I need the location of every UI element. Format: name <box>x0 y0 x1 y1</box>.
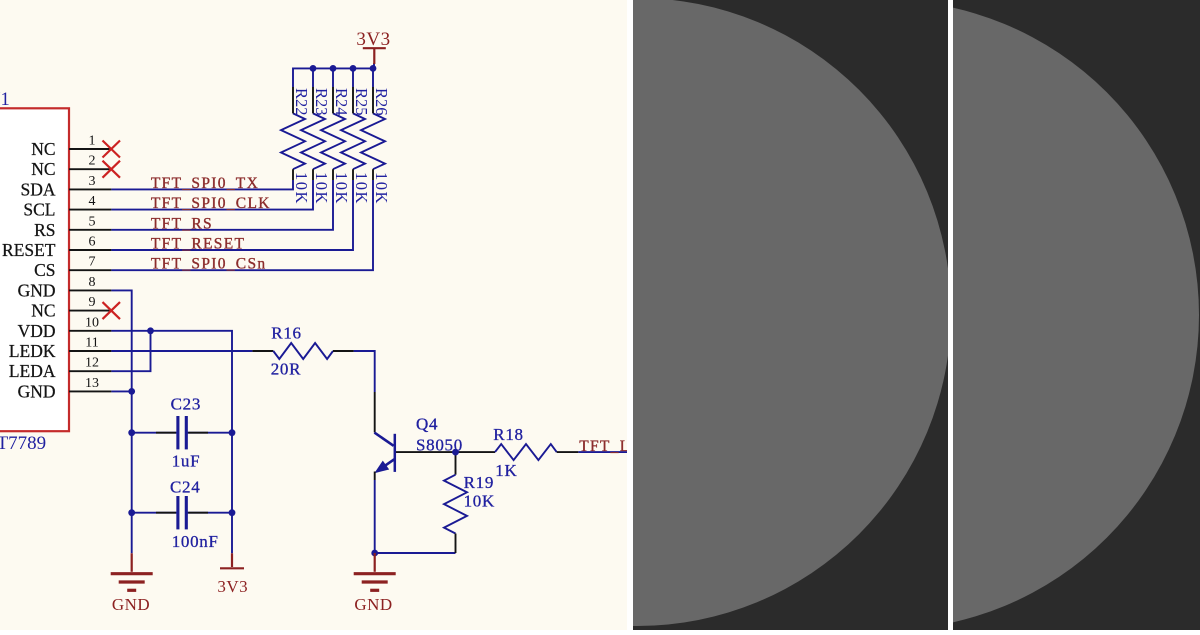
svg-text:TFT_RS: TFT_RS <box>151 215 213 232</box>
svg-text:U1: U1 <box>0 90 10 110</box>
svg-text:GND: GND <box>112 595 150 614</box>
svg-text:4: 4 <box>89 194 96 209</box>
svg-text:GND: GND <box>354 595 392 614</box>
svg-text:8: 8 <box>89 275 96 290</box>
svg-text:1K: 1K <box>495 461 517 480</box>
svg-text:3V3: 3V3 <box>356 29 390 50</box>
svg-text:RESET: RESET <box>2 240 56 260</box>
svg-text:SDA: SDA <box>20 179 55 199</box>
svg-text:S8050: S8050 <box>416 436 463 455</box>
svg-text:6: 6 <box>89 235 96 250</box>
svg-text:C23: C23 <box>171 395 201 414</box>
svg-text:ST7789: ST7789 <box>0 433 46 454</box>
svg-text:TFT_SPI0_CLK: TFT_SPI0_CLK <box>151 195 271 212</box>
svg-text:5: 5 <box>89 214 96 229</box>
svg-text:20R: 20R <box>271 360 301 379</box>
svg-text:10K: 10K <box>464 492 495 511</box>
svg-text:GND: GND <box>18 280 56 300</box>
svg-text:TFT_RESET: TFT_RESET <box>151 236 245 253</box>
svg-text:R19: R19 <box>464 473 494 492</box>
svg-text:9: 9 <box>89 295 96 310</box>
svg-text:3: 3 <box>89 174 96 189</box>
svg-text:RS: RS <box>34 220 55 240</box>
svg-text:3V3: 3V3 <box>217 577 248 596</box>
svg-text:R25: R25 <box>352 88 371 116</box>
svg-text:CS: CS <box>34 260 55 280</box>
svg-text:1: 1 <box>89 134 96 149</box>
svg-text:R18: R18 <box>493 425 523 444</box>
svg-text:Q4: Q4 <box>416 415 438 434</box>
svg-text:VDD: VDD <box>18 321 56 341</box>
svg-text:NC: NC <box>31 139 55 159</box>
svg-text:LEDA: LEDA <box>9 361 56 381</box>
svg-text:13: 13 <box>85 376 99 391</box>
svg-text:1uF: 1uF <box>172 452 201 471</box>
svg-text:NC: NC <box>31 301 55 321</box>
svg-text:12: 12 <box>85 356 99 371</box>
svg-text:TFT_L: TFT_L <box>579 438 628 455</box>
svg-text:10K: 10K <box>352 172 371 205</box>
svg-text:R26: R26 <box>372 88 391 116</box>
svg-text:10K: 10K <box>332 172 351 205</box>
svg-text:11: 11 <box>85 336 98 351</box>
svg-text:2: 2 <box>89 154 96 169</box>
svg-text:C24: C24 <box>170 478 200 497</box>
svg-text:TFT_SPI0_TX: TFT_SPI0_TX <box>151 175 259 192</box>
svg-text:TFT_SPI0_CSn: TFT_SPI0_CSn <box>151 256 267 273</box>
svg-text:7: 7 <box>89 255 96 270</box>
svg-text:SCL: SCL <box>23 200 55 220</box>
svg-text:10K: 10K <box>312 172 331 205</box>
svg-text:GND: GND <box>18 381 56 401</box>
svg-text:10K: 10K <box>292 172 311 205</box>
svg-text:10: 10 <box>85 315 99 330</box>
svg-text:LEDK: LEDK <box>9 341 56 361</box>
svg-text:10K: 10K <box>372 172 391 205</box>
svg-text:NC: NC <box>31 159 55 179</box>
svg-text:100nF: 100nF <box>172 532 219 551</box>
svg-text:R22: R22 <box>292 88 311 116</box>
svg-text:R24: R24 <box>332 88 351 116</box>
svg-text:R16: R16 <box>271 324 301 343</box>
svg-text:R23: R23 <box>312 88 331 116</box>
